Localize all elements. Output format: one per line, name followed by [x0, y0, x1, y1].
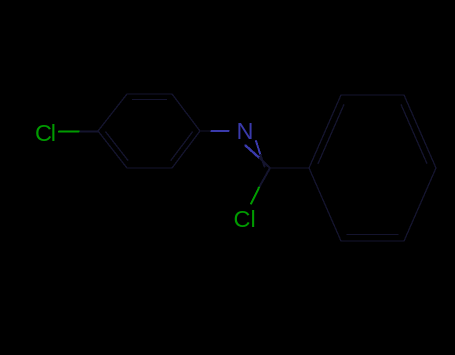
ring2 double bond inner TR-R: [401, 105, 427, 163]
ring2 double bond inner L-TL: [318, 105, 344, 163]
ring1 edge TR-R: [172, 94, 200, 131]
ring2 edge R-BR: [404, 168, 436, 241]
ring1 edge L-TL: [98, 94, 127, 131]
ring2 edge BR-BL: [341, 240, 404, 242]
double bond N=C line B: [256, 141, 261, 155]
bond C-C1'': [270, 167, 309, 169]
bond C-Cl2: [259, 168, 270, 188]
svg-text:N: N: [237, 118, 254, 144]
ring2 edge TR-R: [404, 95, 436, 168]
ring1 double bond inner BL-L: [106, 132, 128, 160]
ring1 edge BL-L: [98, 131, 127, 168]
ring1 edge BR-BL: [127, 167, 172, 169]
ring1 double bond inner R-BR: [171, 132, 192, 160]
svg-text:C: C: [35, 120, 52, 146]
ring1 edge TL-TR: [127, 93, 172, 95]
svg-text:l: l: [51, 120, 56, 146]
ring2 edge TL-TR: [341, 94, 404, 96]
ring2 double bond inner bottom: [347, 234, 397, 236]
svg-text:Cl: Cl: [234, 206, 256, 232]
ring1 edge R-BR: [172, 131, 200, 168]
bond Cl1-C4' (C-Cl): [79, 131, 99, 133]
double bond N=C line A: [246, 146, 260, 159]
ring1 double bond inner top: [132, 99, 166, 101]
ring2 edge BL-L: [309, 168, 341, 241]
bond C1'-N: [200, 130, 212, 132]
ring2 edge L-TL: [309, 95, 341, 168]
